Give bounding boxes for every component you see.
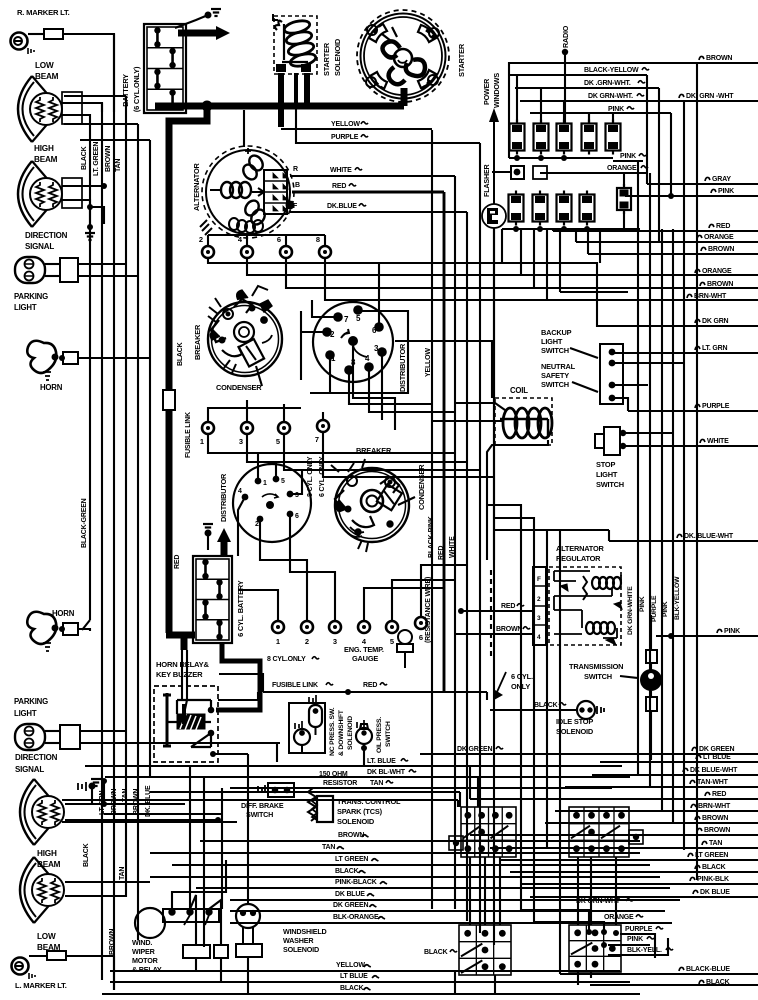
wire dk-bl-wht run (105, 776, 630, 778)
fusible link 1 (163, 390, 175, 410)
svg-text:DK .GRN-WHT.: DK .GRN-WHT. (584, 80, 631, 87)
svg-text:7: 7 (315, 435, 319, 444)
distributor1 pin 1 (325, 350, 335, 360)
wire term3 up (246, 400, 248, 422)
wire fbus1 left (508, 62, 510, 158)
wire term5 up (283, 404, 285, 422)
wire coil top (455, 402, 495, 404)
switch contact 398 (609, 395, 616, 402)
svg-text:LT. GREEN: LT. GREEN (93, 142, 100, 176)
svg-text:BLACK: BLACK (83, 843, 90, 867)
parking lamp R (15, 257, 45, 283)
svg-text:R. MARKER LT.: R. MARKER LT. (17, 8, 70, 17)
wire rbundle 3 (661, 229, 663, 811)
wire DK GRN (597, 325, 758, 327)
wire relay bottom (213, 753, 248, 755)
svg-text:8: 8 (316, 235, 320, 244)
svg-text:BROWN: BROWN (707, 281, 733, 288)
junction pkb (601, 942, 607, 948)
wire lower mid 3 (546, 530, 548, 848)
svg-text:TAN: TAN (709, 840, 722, 847)
wire term4 stub (246, 235, 248, 246)
wire dist2 pin6 down (290, 514, 335, 600)
wire pink bend (588, 113, 590, 124)
wire blockC drop2 (454, 972, 456, 995)
junction fl row (345, 689, 351, 695)
svg-text:RED: RED (501, 603, 515, 610)
wire DK BLUE (230, 899, 680, 901)
svg-text:DK BLUE-WHT: DK BLUE-WHT (690, 767, 738, 774)
svg-text:BLACK: BLACK (81, 146, 88, 170)
svg-text:SWITCH: SWITCH (385, 721, 392, 747)
horn R connector (63, 352, 78, 364)
svg-text:LIGHT: LIGHT (541, 337, 563, 346)
svg-text:LT GREEN: LT GREEN (335, 856, 368, 863)
svg-text:NC PRESS. SW.: NC PRESS. SW. (329, 707, 336, 756)
L marker lamp (12, 958, 36, 980)
wire mbundle 3 (546, 229, 548, 300)
svg-text:SIGNAL: SIGNAL (25, 242, 54, 251)
wire term2 stub (207, 235, 209, 246)
svg-text:TAN: TAN (322, 844, 335, 851)
svg-text:LIGHT: LIGHT (14, 709, 37, 718)
horn L (27, 612, 58, 651)
wire mbundle 2 (533, 229, 535, 288)
breaker 6cyl (331, 459, 409, 552)
wire run bend b (477, 777, 479, 807)
dashed 6cyl (490, 570, 492, 660)
svg-text:FUSIBLE LINK: FUSIBLE LINK (272, 682, 318, 689)
ground headlamps (85, 233, 95, 240)
breaker 8cyl (208, 286, 282, 376)
distributor 6cyl (233, 464, 311, 542)
high beam headlamp L (20, 779, 64, 845)
wire dist1 pin3 down (381, 352, 383, 420)
svg-text:COIL: COIL (510, 386, 528, 395)
wire DK GREEN (420, 753, 758, 755)
svg-text:RED: RED (363, 682, 377, 689)
svg-text:& RELAY: & RELAY (132, 965, 162, 974)
fuse row2 #4 (580, 191, 595, 226)
svg-text:IDLE STOP: IDLE STOP (556, 717, 593, 726)
wire harness v2 (443, 192, 446, 692)
gauge terminal 6 (415, 617, 427, 642)
wire DK GREEN (230, 910, 665, 912)
wire trans switch mid1 (650, 663, 652, 671)
parking lamp L connector (60, 725, 80, 749)
terminal block 2 (533, 166, 547, 179)
svg-text:BROWN: BROWN (109, 929, 116, 955)
wire PINK (656, 635, 758, 637)
backup/neutral switch body (600, 344, 623, 404)
low beam headlamp (18, 76, 62, 142)
wire gterm3 up (334, 600, 336, 621)
wire fuse bus 1 (509, 157, 613, 159)
wire lower mid 4 (559, 530, 561, 974)
wire reg red (461, 610, 533, 612)
wire term8 run (325, 258, 694, 300)
svg-text:CONDENSER: CONDENSER (216, 383, 262, 392)
wire TAN (490, 847, 758, 849)
NC press switch box (289, 695, 325, 753)
temp gauge bulb (397, 630, 413, 668)
wire fl drop (486, 692, 488, 700)
svg-text:BREAKER: BREAKER (356, 446, 392, 455)
wiper connector 1 (183, 945, 210, 958)
svg-text:BLACK: BLACK (424, 949, 448, 956)
junction fbus2 564 (561, 226, 567, 232)
wire TAN (150, 852, 640, 854)
svg-text:BROWN: BROWN (708, 246, 734, 253)
wire BROWN (286, 287, 758, 289)
switch contact 363 (609, 360, 616, 367)
wire BRN-WHT (555, 810, 758, 812)
wire mid run b (62, 799, 458, 801)
svg-text:PINK: PINK (718, 188, 734, 195)
wire block conn 4 (577, 857, 579, 925)
svg-text:ORANGE: ORANGE (607, 165, 637, 172)
junction pb (613, 930, 619, 936)
svg-text:BLK-YELLOW: BLK-YELLOW (674, 576, 681, 620)
svg-text:SOLENOID: SOLENOID (333, 38, 342, 76)
svg-text:SWITCH: SWITCH (541, 380, 569, 389)
fuse row1 #1 (510, 120, 525, 155)
wire brown drop (587, 229, 589, 254)
junction hb L (101, 801, 107, 807)
wire term7 up (322, 412, 324, 420)
wire dist2 pin2 down (260, 519, 307, 600)
wire radio drop (564, 50, 566, 124)
svg-text:SOLENOID: SOLENOID (556, 727, 594, 736)
wire mid bend b (457, 800, 459, 807)
wire washer feed (247, 754, 249, 905)
wire fuse feed 541 (540, 88, 542, 124)
wire PINK-BLK (520, 883, 758, 885)
radio terminal (562, 49, 568, 55)
svg-text:BEAM: BEAM (35, 72, 59, 81)
thick cable battery2 to relay (216, 643, 260, 710)
starter motor (357, 10, 449, 102)
connector block D (569, 925, 621, 972)
svg-text:WASHER: WASHER (283, 936, 314, 945)
wire backup 2 (612, 362, 684, 364)
svg-text:LT. GRN: LT. GRN (702, 345, 727, 352)
wire center drop 1 (189, 766, 191, 909)
svg-text:FLASHER: FLASHER (482, 163, 491, 197)
wire rbundle 5 (683, 101, 685, 850)
svg-text:BLACK: BLACK (177, 342, 184, 366)
wire parking L feed2 (80, 742, 280, 744)
svg-text:REGULATOR: REGULATOR (556, 554, 601, 563)
wire bus dk-blue (149, 140, 151, 778)
svg-text:TAN: TAN (115, 159, 122, 172)
wire flasher down (493, 228, 495, 560)
wire bus brown2 (137, 124, 139, 940)
wire dist1 pin2 left (301, 331, 327, 333)
svg-text:BACKUP: BACKUP (541, 328, 572, 337)
distributor2 pin 6 (287, 511, 294, 518)
wire block conn 6 (615, 857, 617, 925)
wire L-marker (29, 955, 47, 957)
wire PINK-BLACK (196, 887, 670, 889)
junction relay bottom (210, 751, 216, 757)
wire coil mid (432, 420, 495, 422)
svg-text:DK.BLUE: DK.BLUE (327, 203, 357, 210)
wire LT GREEN (172, 864, 650, 866)
svg-text:2: 2 (199, 235, 203, 244)
connector block C (459, 925, 511, 975)
junction fbus2 587 (584, 226, 590, 232)
wire orange b (534, 922, 604, 932)
fuse row2 #3 (557, 191, 572, 226)
wire wiper drop 1 (195, 958, 197, 971)
thick cable battery2 up arrow (221, 540, 228, 556)
svg-text:1: 1 (276, 637, 280, 646)
connector block A tab (449, 836, 463, 850)
transmission switch (640, 650, 662, 711)
wire stop 1 (623, 432, 673, 434)
svg-text:NEUTRAL: NEUTRAL (541, 362, 576, 371)
stop light switch (595, 427, 620, 455)
wire oil switch stem (363, 744, 365, 766)
wire WHITE (623, 445, 758, 447)
wire fuse feed 613 (612, 113, 614, 124)
wire LT BLUE (600, 761, 758, 763)
wire rbundle 6 (696, 63, 698, 880)
svg-text:WINDOWS: WINDOWS (492, 73, 501, 108)
connector block A (TCS) (461, 807, 516, 857)
wire DK BLUE-WHT (592, 774, 758, 776)
svg-text:GRAY: GRAY (712, 176, 731, 183)
wire bus black (89, 130, 91, 620)
wire ORANGE (576, 241, 758, 243)
junction orb (601, 929, 607, 935)
svg-text:DK GREEN: DK GREEN (333, 902, 368, 909)
wire RED (553, 230, 758, 232)
svg-text:DK GRN: DK GRN (702, 318, 729, 325)
wire BROWN (470, 834, 758, 836)
wire flasher link (492, 171, 511, 173)
svg-text:LT GREEN: LT GREEN (695, 852, 728, 859)
svg-text:8 CYL.ONLY: 8 CYL.ONLY (267, 656, 306, 663)
wire feed 647 (646, 75, 648, 184)
junction high beam B (87, 204, 93, 210)
ground ticks horn area (78, 782, 86, 791)
svg-text:TRANSMISSION: TRANSMISSION (569, 662, 623, 671)
wire parking L a (45, 730, 60, 732)
wire gterm2 up (306, 600, 308, 621)
wire blockD drop2 (590, 972, 592, 978)
svg-text:POWER: POWER (482, 78, 491, 105)
svg-text:L. MARKER LT.: L. MARKER LT. (15, 981, 67, 990)
wire block conn 2 (484, 857, 486, 925)
svg-text:SWITCH: SWITCH (541, 346, 569, 355)
wire harness v4 (466, 212, 468, 921)
horn relay coil (163, 693, 214, 747)
wire LT. GRN (612, 352, 758, 354)
wire mbundle 1 (520, 229, 522, 275)
wire lower mid4 bend (534, 921, 560, 923)
terminal 2 (199, 235, 214, 258)
junction high beam A (101, 183, 107, 189)
wire term bus (208, 234, 325, 236)
wire horn R feed (78, 357, 149, 359)
high beam headlamp (18, 161, 62, 227)
svg-text:LOW: LOW (35, 61, 54, 70)
svg-text:DK BLUE: DK BLUE (700, 889, 730, 896)
thick cable starter drop (401, 88, 408, 106)
svg-text:PARKING: PARKING (14, 697, 48, 706)
ground direction L (91, 779, 101, 786)
ground horn area dot (89, 783, 96, 790)
wire ORANGE (247, 274, 758, 276)
svg-text:1: 1 (263, 480, 267, 487)
ignition coil (495, 398, 552, 445)
pointer backup (570, 348, 598, 358)
gauge terminal 3 (329, 621, 341, 646)
terminal 7 (315, 420, 329, 444)
svg-text:4: 4 (238, 488, 242, 495)
horn relay box (154, 686, 218, 762)
svg-text:BEAM: BEAM (34, 155, 58, 164)
gauge terminal 4 (358, 621, 370, 646)
junction direction L (101, 778, 107, 784)
svg-text:RED: RED (712, 791, 726, 798)
svg-text:6 CYL.: 6 CYL. (511, 672, 533, 681)
resistor R-marker lead (44, 29, 63, 39)
wire DK. BLUE-WHT (609, 540, 758, 542)
wire term3 down (247, 434, 467, 462)
starter solenoid S1 (273, 14, 317, 74)
wire low beam L a (65, 881, 150, 883)
svg-text:1: 1 (200, 437, 204, 446)
wire term8 stub (324, 235, 326, 246)
wire center drop 2 (203, 777, 205, 947)
svg-text:R: R (293, 166, 298, 173)
pointer trans (620, 676, 638, 678)
svg-text:STOP: STOP (596, 460, 615, 469)
wire blockC drop (494, 975, 496, 993)
wire BROWN (200, 840, 640, 842)
svg-text:PINK: PINK (627, 936, 643, 943)
wire mid run a (150, 791, 460, 793)
wire wiper feed 1 (172, 860, 226, 909)
svg-text:B: B (295, 182, 300, 189)
svg-text:ORANGE: ORANGE (704, 234, 734, 241)
condenser2 pointer (398, 497, 415, 505)
wire dist1 pin4 down (369, 367, 455, 412)
svg-text:6 CYL. ONLY: 6 CYL. ONLY (319, 456, 326, 497)
svg-text:BROWN: BROWN (338, 832, 364, 839)
wire trans switch up (650, 615, 652, 650)
wire BLACK (150, 876, 660, 878)
terminal 6 (277, 235, 292, 258)
distributor2 pin 4 (242, 494, 249, 501)
wire bus tan (125, 96, 127, 860)
svg-text:PURPLE: PURPLE (702, 403, 730, 410)
svg-text:STARTER: STARTER (457, 43, 466, 77)
wire DK.BLUE (290, 211, 467, 213)
wire horn area drop (91, 786, 93, 804)
wire term4 run (247, 258, 700, 275)
terminal 1 (200, 422, 214, 446)
resistor 150 ohm (308, 788, 316, 821)
svg-text:DK GREEN: DK GREEN (699, 746, 734, 753)
svg-text:LOW: LOW (37, 932, 56, 941)
svg-text:PURPLE: PURPLE (331, 134, 359, 141)
wire dk-grn-wht b (521, 910, 589, 932)
alternator regulator (533, 567, 622, 645)
fuse row1 #5 (606, 120, 621, 155)
svg-text:DIRECTION: DIRECTION (25, 231, 68, 240)
wire rbundle 1 (637, 161, 639, 775)
wire LT GREEN (500, 859, 758, 861)
junction pink r (668, 633, 674, 639)
svg-text:DK GRN-WHITE: DK GRN-WHITE (627, 586, 634, 635)
horn L terminal (59, 626, 65, 632)
svg-text:2: 2 (255, 521, 259, 528)
svg-text:BLACK-GREEN: BLACK-GREEN (81, 498, 88, 548)
wire housing stub 1 (64, 95, 126, 97)
svg-text:BROWN: BROWN (706, 55, 732, 62)
wire lower mid 1 (487, 505, 521, 910)
wire parking L feed1 (80, 730, 126, 732)
wire coil bottom (487, 440, 548, 560)
wire high beam B (62, 200, 90, 227)
wire RED alt (292, 191, 444, 194)
wire dk-blue-wht bend (608, 530, 610, 541)
arrow 6cyl (497, 672, 506, 692)
fuse row1 #3 (557, 120, 572, 155)
svg-text:LT. BLUE: LT. BLUE (367, 758, 396, 765)
junction fbus1 a (514, 155, 520, 161)
wire neutral 2 (612, 384, 648, 386)
wire R-marker feed (63, 34, 114, 112)
wire blk-yell b (608, 938, 668, 955)
svg-text:3: 3 (537, 615, 541, 622)
svg-text:DIRECTION: DIRECTION (15, 753, 58, 762)
svg-text:DISTRIBUTOR: DISTRIBUTOR (398, 343, 407, 392)
battery 6cyl (144, 24, 186, 113)
wire alternator feed (243, 110, 245, 147)
wire dkbluewht feed (494, 529, 609, 531)
svg-text:LT BLUE: LT BLUE (340, 973, 368, 980)
wire red drop (552, 229, 554, 231)
wire dist1 pin7 left (312, 300, 338, 317)
wire BROWN (545, 822, 758, 824)
wire reg brown (455, 633, 533, 635)
svg-text:SWITCH: SWITCH (246, 810, 273, 819)
wire mid run c (104, 813, 222, 815)
svg-text:BROWN: BROWN (133, 789, 140, 815)
stop switch contact 2 (620, 443, 626, 449)
wire horn L feed (78, 629, 90, 631)
wire gterm5 up (392, 580, 455, 621)
wire flasher link2 (493, 171, 495, 173)
svg-text:BLK-ORANGE: BLK-ORANGE (333, 914, 379, 921)
svg-text:DIFF. BRAKE: DIFF. BRAKE (241, 801, 284, 810)
svg-text:BLACK-BLUE: BLACK-BLUE (686, 966, 730, 973)
wire gterm1 up (238, 590, 278, 621)
oil pressure switch (356, 720, 372, 744)
wire fuse bus 2 (502, 228, 640, 230)
svg-text:SPARK (TCS): SPARK (TCS) (337, 807, 383, 816)
wire low beam L b (65, 860, 126, 896)
pointer neutral (572, 382, 598, 392)
wire fuse feed 517 (516, 75, 518, 124)
wire battery2 gnd link (207, 533, 209, 550)
svg-text:DK GREEN: DK GREEN (457, 746, 492, 753)
